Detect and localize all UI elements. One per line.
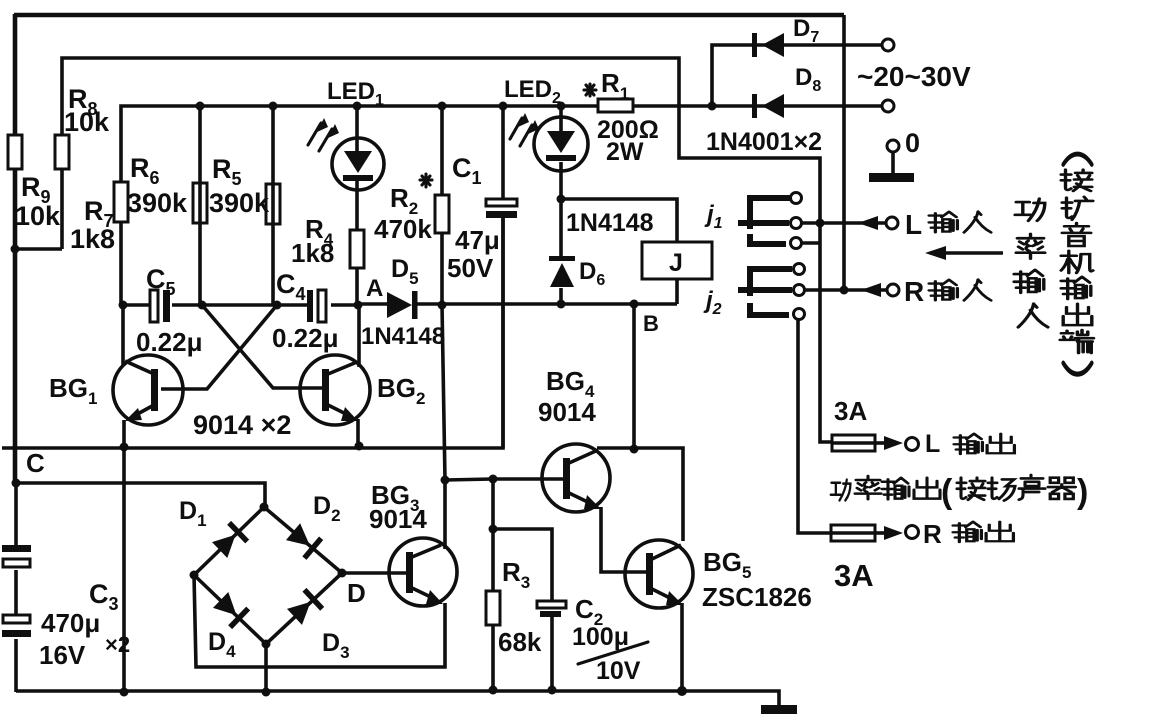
- label R shu-ru: [904, 276, 991, 307]
- wire BG4 collector row: [597, 448, 683, 541]
- transistor BG3: [389, 480, 457, 606]
- wire R6 column: [198, 106, 202, 305]
- wire bridge left to BG3 emitter: [194, 575, 445, 667]
- svg-text:L: L: [925, 430, 940, 458]
- node A: [354, 301, 363, 310]
- wire BG4 base row: [445, 479, 567, 480]
- junction dots row A left: [119, 301, 128, 310]
- capacitor C4: [277, 290, 357, 322]
- wire BG1 emitter to ground rail: [122, 447, 126, 692]
- node B: [630, 300, 639, 309]
- relay J: [642, 242, 712, 304]
- capacitor C2: [537, 601, 566, 617]
- diode bridge D3: [266, 573, 342, 644]
- wire R4 to node A: [355, 268, 359, 305]
- svg-text:D: D: [347, 578, 366, 608]
- svg-text:(: (: [941, 473, 953, 511]
- svg-text:47μ: 47μ: [455, 225, 500, 255]
- resistor R6: [193, 183, 207, 223]
- node rail junction R2: [438, 102, 447, 111]
- node D wire to BG3 base: [342, 571, 409, 575]
- node junction R3-C2: [489, 525, 498, 534]
- resistor R5: [266, 184, 280, 224]
- svg-text:9014: 9014: [538, 397, 596, 427]
- svg-text:3A: 3A: [834, 396, 867, 426]
- node junction R9-R8 bottom: [11, 245, 20, 254]
- svg-text:10k: 10k: [64, 107, 110, 137]
- svg-text:A: A: [366, 275, 383, 302]
- jack j1: [738, 193, 820, 249]
- arrow between input rows: [925, 246, 1003, 260]
- terminal 0 with ground: [869, 140, 914, 182]
- wire L input: [801, 221, 886, 225]
- svg-text:16V: 16V: [39, 640, 86, 670]
- label L shu-ru: [905, 209, 991, 240]
- fuse L output 3A: [832, 435, 875, 451]
- transistor BG2: [300, 305, 370, 446]
- wire R input: [804, 288, 888, 292]
- terminal L output: [906, 438, 919, 451]
- wire left border upper: [13, 14, 18, 135]
- svg-text:0.22μ: 0.22μ: [136, 327, 203, 357]
- ground symbol bottom: [761, 705, 797, 714]
- fuse R output 3A: [831, 525, 875, 541]
- svg-text:0.22μ: 0.22μ: [272, 323, 339, 353]
- node junction BG1 emitter: [120, 443, 129, 452]
- node junction LED2 bottom: [557, 195, 566, 204]
- svg-text:1k8: 1k8: [70, 224, 115, 254]
- capacitor C5: [123, 290, 202, 322]
- node rail junction LED1: [353, 102, 362, 111]
- svg-text:50V: 50V: [447, 253, 494, 283]
- arrow R input: [861, 283, 881, 297]
- svg-text:470μ: 470μ: [41, 608, 100, 638]
- wire bottom ground rail: [16, 691, 779, 706]
- transistor BG5: [625, 540, 693, 691]
- diode bridge D1: [194, 507, 264, 575]
- resistor R3: [486, 591, 500, 625]
- node junction BG2 emitter: [355, 442, 364, 451]
- arrow L input: [858, 216, 878, 230]
- label L shu-chu: [925, 430, 1014, 458]
- resistor R8: [55, 135, 69, 169]
- svg-text:ZSC1826: ZSC1826: [702, 582, 812, 612]
- svg-text:1k8: 1k8: [291, 238, 334, 268]
- node junction R3 branch: [489, 475, 498, 484]
- wire row A between R6 and R5: [202, 303, 277, 307]
- resistor R2: [435, 195, 449, 233]
- jack j2: [738, 264, 805, 320]
- diode D5 1N4148: [358, 291, 442, 319]
- svg-text:~20~30V: ~20~30V: [857, 61, 971, 92]
- node rail junction LED2: [557, 102, 566, 111]
- wire j2 feed down to R fuse: [798, 319, 831, 533]
- svg-text:B: B: [643, 311, 659, 336]
- svg-text:2W: 2W: [606, 138, 644, 166]
- svg-text:100μ: 100μ: [572, 623, 629, 651]
- svg-text:390k: 390k: [127, 188, 188, 218]
- node junction R2 row A: [438, 301, 447, 310]
- label R shu-chu: [923, 519, 1013, 549]
- wire row A right section: [442, 302, 677, 306]
- svg-text:): ): [1077, 473, 1088, 511]
- terminal R output: [906, 526, 919, 539]
- label vertical jie kuoyinji shuchuduan: [1060, 154, 1093, 374]
- resistor R1: [598, 99, 633, 112]
- node junction B line BG4 collector: [630, 445, 639, 454]
- wire bridge bottom to ground rail: [264, 644, 268, 692]
- wire main top rail: [121, 106, 884, 305]
- diode D8 1N4001: [752, 94, 784, 118]
- capacitor C1: [486, 106, 517, 448]
- svg-text:68k: 68k: [498, 627, 542, 657]
- node junction L input: [816, 219, 825, 228]
- wire D7 branch: [712, 45, 884, 106]
- transistor BG4: [542, 444, 650, 572]
- svg-text:470k: 470k: [374, 214, 432, 244]
- svg-text:1N4148: 1N4148: [361, 323, 445, 350]
- resistor R7: [114, 182, 128, 222]
- svg-text:9014 ×2: 9014 ×2: [193, 410, 291, 440]
- diode bridge D4: [194, 575, 266, 644]
- node junction R2 line BG3-BG4: [441, 476, 450, 485]
- diode D6 1N4148: [549, 199, 575, 304]
- label vertical gonglv shuru: [1014, 199, 1048, 328]
- svg-text:L: L: [905, 209, 922, 240]
- wire LED2 to relay top: [561, 199, 677, 242]
- wire R2 column down: [442, 106, 445, 480]
- svg-text:3A: 3A: [834, 558, 874, 593]
- wire top border: [14, 13, 844, 18]
- svg-text:9014: 9014: [369, 504, 427, 534]
- svg-text:1N4148: 1N4148: [566, 209, 654, 237]
- svg-text:390k: 390k: [209, 188, 270, 218]
- wire cross-coupling C4 to BG1 base: [161, 305, 277, 389]
- svg-text:J: J: [669, 249, 683, 277]
- LED LED2: [510, 106, 588, 199]
- capacitor C3 double electrolytic: [2, 483, 31, 692]
- node junction D6 row: [557, 300, 566, 309]
- node C: [12, 479, 21, 488]
- terminal AC input bottom: [882, 100, 894, 112]
- node junction R input right border: [840, 286, 849, 295]
- wire j1 feed down to L fuse: [820, 224, 832, 442]
- bridge vertex dots: [260, 503, 269, 512]
- svg-text:1N4001×2: 1N4001×2: [706, 128, 822, 156]
- bottom rail junction dots: [120, 688, 129, 697]
- svg-text:10V: 10V: [596, 657, 641, 685]
- terminal R input: [887, 284, 899, 296]
- wire cross-coupling C5 to BG2 base: [202, 305, 324, 388]
- wire R3 column: [491, 479, 495, 690]
- node rail junction R6: [196, 102, 205, 111]
- wire C2 branch: [493, 529, 552, 690]
- arrow L output: [875, 436, 903, 450]
- wire R5 column: [271, 106, 275, 305]
- resistor R9: [8, 135, 22, 169]
- svg-text:R: R: [904, 276, 924, 307]
- wire node C to bridge top: [16, 483, 265, 505]
- diode D7 1N4001: [752, 33, 784, 57]
- terminal AC input top: [882, 39, 894, 51]
- arrow R output: [875, 526, 903, 540]
- node junction D7 branch: [708, 102, 717, 111]
- wire R9-R8 link: [14, 247, 62, 251]
- svg-text:C: C: [26, 448, 45, 478]
- wire node B down: [632, 304, 636, 449]
- transistor BG1: [113, 305, 183, 447]
- wire left border mid: [13, 169, 18, 483]
- node rail junction C1: [499, 102, 508, 111]
- diode bridge D2: [264, 507, 342, 573]
- wire emitter rail: [2, 218, 503, 448]
- node rail junction R5: [269, 102, 278, 111]
- svg-text:R: R: [923, 519, 942, 549]
- svg-text:×2: ×2: [105, 632, 130, 657]
- wire right border vertical: [842, 15, 846, 290]
- svg-text:0: 0: [905, 128, 920, 158]
- svg-text:10k: 10k: [15, 201, 61, 231]
- wire second rail top: [62, 58, 820, 249]
- resistor R4: [350, 230, 364, 268]
- LED LED1: [308, 106, 384, 230]
- terminal L input: [886, 217, 898, 229]
- label gonglv shuchu jie yangshengqi: [831, 473, 1089, 511]
